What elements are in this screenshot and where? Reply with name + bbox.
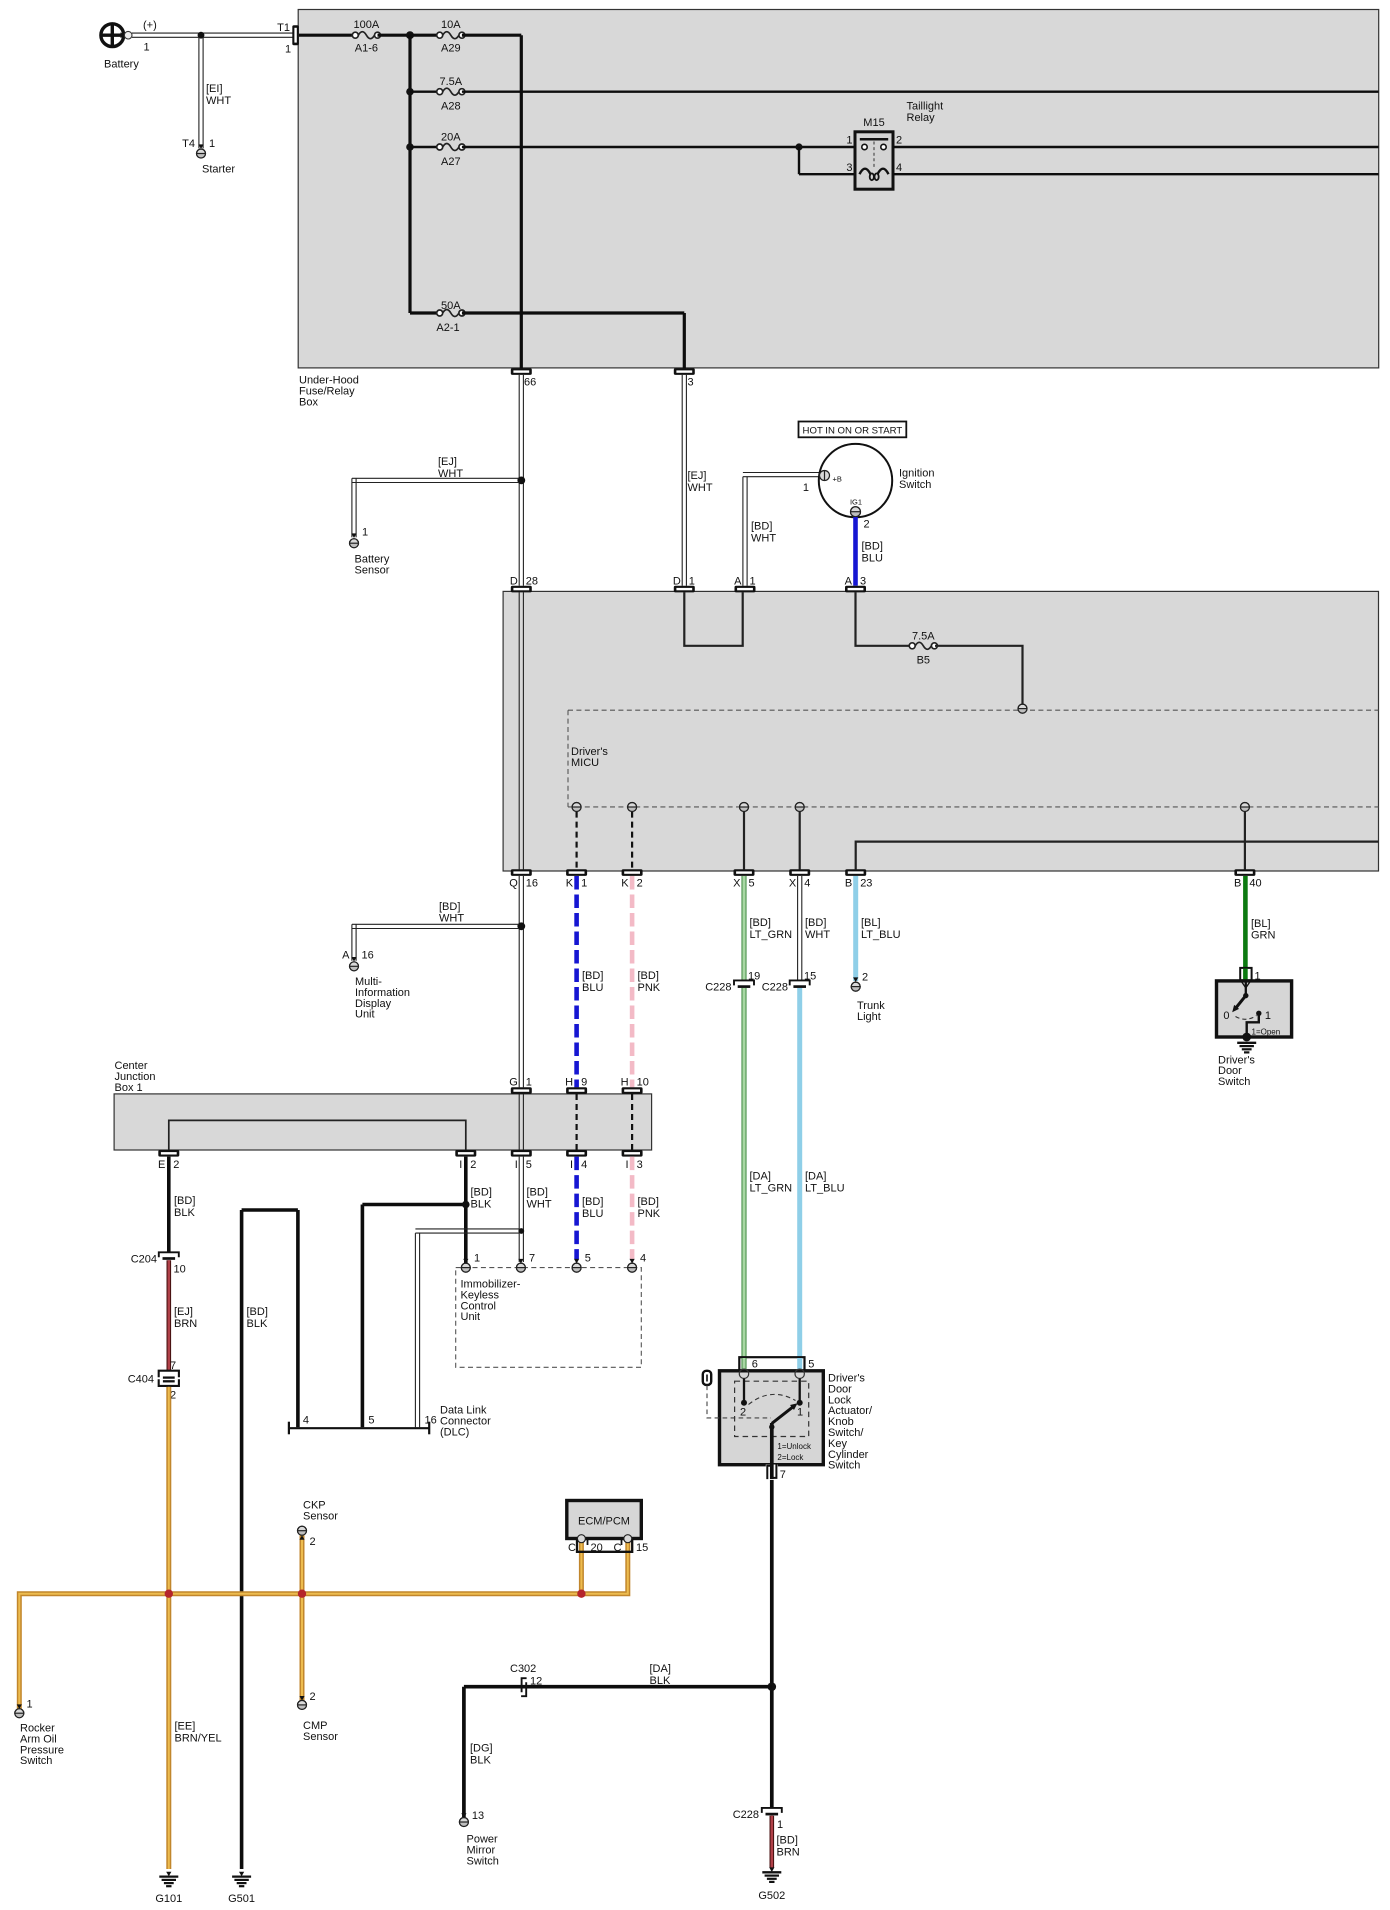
svg-text:40: 40: [1249, 878, 1261, 890]
door switch case ground: [1237, 1033, 1256, 1053]
power mirror switch pin 13: [459, 1810, 499, 1867]
svg-text:3: 3: [637, 1159, 643, 1171]
connector C404 pins 7/2: [128, 1360, 179, 1402]
orange wire CKP to CMP sensor: [300, 1535, 305, 1704]
fuse 7.5A B5: [909, 630, 937, 666]
connector I 2 (junction box bottom): [455, 1150, 476, 1171]
svg-text:Sensor: Sensor: [303, 1731, 338, 1743]
svg-text:5: 5: [749, 878, 755, 890]
svg-text:[BD]: [BD]: [862, 541, 883, 553]
svg-text:19: 19: [748, 971, 760, 983]
fuse 100A A1-6: [352, 19, 380, 55]
ground G101: [155, 1872, 182, 1905]
black wire door lock to C228 and DA BLK junction: [768, 1480, 777, 1808]
MICU pin on dashed line (B5 feed): [1018, 704, 1027, 713]
svg-text:1=Unlock: 1=Unlock: [777, 1442, 812, 1451]
connector K 2 (MICU bottom): [621, 869, 642, 889]
svg-text:[DG]: [DG]: [470, 1743, 493, 1755]
svg-text:16: 16: [362, 950, 374, 962]
svg-text:WHT: WHT: [439, 913, 464, 925]
svg-text:1: 1: [285, 44, 291, 56]
connector I 5 (junction box bottom): [511, 1150, 532, 1171]
svg-text:D: D: [510, 575, 518, 587]
MICU internal dashed wire K1: [572, 803, 581, 870]
green wire B40 to door switch [BL] GRN: [1245, 876, 1275, 973]
svg-text:A29: A29: [441, 43, 461, 55]
green wire X5 to C228 [BD] LT_GRN: [744, 876, 792, 981]
svg-text:BLU: BLU: [582, 982, 603, 994]
pink dashed wire I3 to immobilizer pin 4 [BD] PNK: [632, 1157, 661, 1259]
svg-text:[BD]: [BD]: [471, 1187, 492, 1199]
multi-information display unit pin A 16: [342, 950, 410, 1021]
svg-text:16: 16: [425, 1415, 437, 1427]
svg-text:B5: B5: [917, 655, 930, 667]
svg-text:Switch: Switch: [828, 1460, 860, 1472]
svg-text:Box 1: Box 1: [115, 1082, 143, 1094]
connector C204 pin 10: [131, 1252, 186, 1275]
svg-text:7: 7: [780, 1469, 786, 1481]
fuse 20A A27: [437, 132, 465, 168]
wire B5 fuse to MICU pin: [935, 646, 1023, 705]
svg-text:2: 2: [862, 972, 868, 984]
svg-text:K: K: [621, 878, 629, 890]
svg-text:13: 13: [472, 1810, 484, 1822]
svg-text:[BD]: [BD]: [582, 970, 603, 982]
connector C228 pin 19: [705, 971, 760, 994]
svg-text:Sensor: Sensor: [303, 1510, 338, 1522]
MICU internal wire X5: [740, 803, 749, 870]
wire battery junction to starter: [199, 37, 231, 148]
wire 50A branch: [410, 311, 440, 314]
connector D 1 (MICU top): [673, 575, 695, 592]
svg-text:I: I: [570, 1159, 573, 1171]
svg-text:A: A: [342, 950, 350, 962]
svg-text:(+): (+): [143, 20, 157, 32]
HOT IN ON OR START banner: [799, 422, 907, 438]
svg-text:PNK: PNK: [638, 982, 661, 994]
connector I 3 (junction box bottom): [622, 1150, 643, 1171]
svg-text:LT_BLU: LT_BLU: [861, 929, 901, 941]
svg-text:66: 66: [524, 377, 536, 389]
svg-text:7.5A: 7.5A: [912, 630, 935, 642]
svg-text:15: 15: [636, 1542, 648, 1554]
svg-text:[BD]: [BD]: [582, 1196, 603, 1208]
pink dashed wire K2 to H10 [BD] PNK: [632, 876, 661, 1087]
svg-text:9: 9: [581, 1076, 587, 1088]
svg-text:G501: G501: [228, 1893, 255, 1905]
ECM/PCM pin C 20: [577, 1535, 585, 1543]
svg-text:Relay: Relay: [907, 112, 936, 124]
black wire to G501 and DLC pin 4 [BD] BLK: [242, 1210, 298, 1869]
svg-text:BRN: BRN: [174, 1318, 197, 1330]
svg-text:2: 2: [896, 135, 902, 147]
black wire I2 to immobilizer pin 1 [BD] BLK: [466, 1157, 492, 1263]
wire 100A fuse to bus junction: [378, 31, 415, 39]
svg-text:1: 1: [27, 1699, 33, 1711]
junction dot orange at CKP wire: [298, 1590, 306, 1598]
wire battery to T1 [EI] WHT: [132, 32, 293, 39]
svg-text:BLK: BLK: [247, 1318, 268, 1330]
svg-text:12: 12: [530, 1676, 542, 1688]
svg-text:10A: 10A: [441, 19, 461, 31]
blue dashed wire I4 to immobilizer pin 5 [BD] BLU: [577, 1157, 604, 1259]
svg-text:Starter: Starter: [202, 164, 235, 176]
Under-Hood Fuse/Relay Box: [298, 10, 1379, 409]
starter pin T4-1: [182, 138, 235, 176]
svg-text:I: I: [626, 1159, 629, 1171]
svg-text:LT_GRN: LT_GRN: [750, 1183, 793, 1195]
svg-text:MICU: MICU: [571, 757, 599, 769]
svg-text:5: 5: [368, 1415, 374, 1427]
svg-text:[DA]: [DA]: [750, 1171, 771, 1183]
ground G501: [228, 1872, 255, 1905]
svg-text:T1: T1: [277, 22, 290, 34]
immobilizer pin 5: [572, 1253, 591, 1273]
svg-text:1: 1: [209, 138, 215, 150]
svg-text:G101: G101: [155, 1893, 182, 1905]
svg-text:(DLC): (DLC): [440, 1427, 469, 1439]
svg-text:T4: T4: [182, 138, 195, 150]
svg-text:B: B: [845, 878, 852, 890]
svg-text:[DA]: [DA]: [805, 1171, 826, 1183]
svg-text:4: 4: [581, 1159, 587, 1171]
svg-text:2: 2: [740, 1407, 746, 1419]
svg-text:PNK: PNK: [638, 1208, 661, 1220]
svg-text:A: A: [734, 575, 742, 587]
white wire Q16 to G1 [BD] WHT: [439, 876, 525, 1087]
immobilizer pin 7: [516, 1253, 535, 1273]
fuse bus vertical wire: [408, 35, 411, 313]
MICU internal wire A3 to fuse B5: [856, 592, 912, 646]
black wire E2 to C204 [BD] BLK: [169, 1157, 196, 1252]
white wire A1 to ignition switch +B [BD] WHT: [743, 473, 820, 586]
MICU internal wire B40: [1240, 803, 1249, 870]
connector A 1 (MICU top): [734, 575, 755, 592]
svg-text:K: K: [566, 878, 574, 890]
svg-text:100A: 100A: [354, 19, 380, 31]
black wire branch I2 to DLC pin 5: [362, 1201, 469, 1428]
wire 7.5A fuse to box right edge: [462, 90, 1379, 92]
svg-text:[BD]: [BD]: [777, 1835, 798, 1847]
svg-text:1: 1: [803, 482, 809, 494]
junction dot orange at G101 wire: [165, 1590, 173, 1598]
driver's door switch connector 1: [1240, 968, 1260, 983]
dark red wire C228 to G502 [BD] BRN: [772, 1816, 800, 1868]
driver's door switch box: [1217, 981, 1292, 1088]
svg-text:Unit: Unit: [355, 1009, 375, 1021]
svg-text:[EJ]: [EJ]: [438, 456, 457, 468]
svg-text:[BD]: [BD]: [247, 1306, 268, 1318]
svg-text:I: I: [515, 1159, 518, 1171]
svg-text:Unit: Unit: [461, 1311, 481, 1323]
connector H 9 (junction box top): [565, 1076, 587, 1094]
svg-text:C404: C404: [128, 1373, 154, 1385]
svg-text:A2-1: A2-1: [436, 322, 459, 334]
connector C228 pin 15: [762, 971, 817, 994]
battery sensor pin 1: [350, 527, 390, 577]
svg-text:Ignition: Ignition: [899, 468, 934, 480]
svg-text:M15: M15: [863, 117, 884, 129]
junction to 7.5A fuse: [406, 88, 440, 96]
wire 10A fuse to connector 66: [462, 35, 521, 368]
svg-text:4: 4: [804, 878, 810, 890]
connector Q 16 (MICU bottom): [509, 869, 538, 889]
svg-text:Battery: Battery: [104, 59, 139, 71]
svg-text:WHT: WHT: [688, 482, 713, 494]
svg-text:1=Open: 1=Open: [1252, 1028, 1281, 1037]
blue dashed wire K1 to H9 [BD] BLU: [577, 876, 604, 1087]
svg-text:C204: C204: [131, 1253, 157, 1265]
junction box internal wire E2-I2: [169, 1120, 466, 1150]
svg-text:3: 3: [846, 162, 852, 174]
svg-text:1: 1: [144, 42, 150, 54]
door lock switch contacts 2 and 1: [740, 1379, 803, 1419]
svg-text:[EJ]: [EJ]: [688, 470, 707, 482]
svg-text:23: 23: [860, 878, 872, 890]
svg-text:Box: Box: [299, 396, 318, 408]
svg-text:[BD]: [BD]: [638, 970, 659, 982]
immobilizer pin 4: [628, 1253, 647, 1273]
svg-text:Taillight: Taillight: [907, 101, 944, 113]
svg-text:C228: C228: [762, 981, 788, 993]
svg-text:15: 15: [804, 971, 816, 983]
svg-text:WHT: WHT: [527, 1199, 552, 1211]
junction to 20A fuse: [406, 143, 440, 151]
dark red wire C204 to C404 [EJ] BRN: [169, 1260, 197, 1370]
Driver's MICU dashed outline: [568, 710, 1379, 807]
connector H 10 (junction box top): [621, 1076, 649, 1094]
svg-text:3: 3: [688, 377, 694, 389]
connector I 4 (junction box bottom): [566, 1150, 587, 1171]
black horizontal wire [DA] BLK: [464, 1663, 772, 1687]
svg-text:BRN: BRN: [777, 1847, 800, 1859]
svg-text:16: 16: [526, 878, 538, 890]
svg-text:BLU: BLU: [862, 553, 883, 565]
taillight relay M15: [846, 101, 943, 190]
MICU internal wire B23: [856, 842, 1379, 870]
light blue wire C228 to door lock actuator [DA] LT_BLU: [800, 988, 845, 1371]
svg-text:LT_GRN: LT_GRN: [750, 929, 793, 941]
white wire I5 to immobilizer pin 7 [BD] WHT: [518, 1157, 551, 1262]
svg-text:7.5A: 7.5A: [439, 76, 462, 88]
rocker arm oil pressure switch pin 1: [15, 1699, 64, 1768]
ECM/PCM: [567, 1501, 642, 1539]
CKP sensor pin 2: [298, 1500, 339, 1549]
white wire X4 to C228 [BD] WHT: [798, 876, 831, 981]
svg-text:1: 1: [846, 135, 852, 147]
svg-text:7: 7: [529, 1253, 535, 1265]
svg-text:20: 20: [591, 1542, 603, 1554]
fuse 7.5A A28: [437, 76, 465, 112]
battery: [101, 20, 157, 71]
svg-text:6: 6: [752, 1358, 758, 1370]
black wire to power mirror switch [DG] BLK: [464, 1687, 493, 1818]
Driver's MICU box: [503, 591, 1378, 871]
svg-text:2: 2: [173, 1159, 179, 1171]
svg-text:Switch: Switch: [1218, 1076, 1250, 1088]
connector 66: [511, 368, 536, 388]
svg-text:X: X: [789, 878, 797, 890]
svg-text:[BL]: [BL]: [861, 917, 881, 929]
MICU internal wire D1 to A1: [684, 592, 742, 646]
svg-text:A1-6: A1-6: [355, 43, 378, 55]
svg-text:2: 2: [310, 1536, 316, 1548]
MICU internal dashed wire K2: [628, 803, 637, 870]
svg-text:2: 2: [637, 878, 643, 890]
svg-text:2=Lock: 2=Lock: [777, 1453, 804, 1462]
door lock switch lever: [769, 1403, 812, 1464]
svg-text:BLU: BLU: [582, 1208, 603, 1220]
svg-text:A28: A28: [441, 101, 461, 113]
wire relay pin 2 to box edge: [893, 146, 1379, 148]
svg-text:5: 5: [526, 1159, 532, 1171]
connector C302 pin 12: [510, 1663, 542, 1696]
driver's door lock actuator connector pins 6/5: [739, 1357, 814, 1371]
wire IG1 to A3 [BD] BLU: [856, 517, 883, 586]
wire 20A fuse to relay pin 1: [462, 146, 855, 148]
svg-text:1: 1: [689, 575, 695, 587]
junction dot orange at ECM C20: [577, 1590, 585, 1598]
svg-text:Sensor: Sensor: [355, 565, 390, 577]
svg-text:10: 10: [637, 1076, 649, 1088]
svg-text:GRN: GRN: [1251, 930, 1276, 942]
connector B 40 (MICU bottom): [1234, 869, 1262, 889]
svg-text:1: 1: [1265, 1010, 1271, 1022]
svg-text:E: E: [158, 1159, 165, 1171]
ignition switch pin 2 IG1: [850, 498, 870, 531]
svg-text:LT_BLU: LT_BLU: [805, 1183, 845, 1195]
ground G502: [758, 1867, 785, 1902]
connector K 1 (MICU bottom): [566, 869, 587, 889]
svg-text:1: 1: [526, 1076, 532, 1088]
svg-text:X: X: [733, 878, 741, 890]
connector 3 (under-hood): [674, 368, 695, 388]
wire junction to 10A fuse: [410, 34, 440, 37]
fuse 10A A29: [437, 19, 465, 55]
svg-text:[BL]: [BL]: [1251, 918, 1271, 930]
ECM/PCM pin C 15: [624, 1535, 632, 1543]
CMP sensor pin 2: [298, 1691, 339, 1743]
key symbol: [703, 1371, 771, 1418]
light blue wire B23 to trunk light [BL] LT_BLU: [856, 876, 901, 981]
svg-text:10: 10: [174, 1264, 186, 1276]
svg-text:7: 7: [170, 1360, 176, 1372]
orange wire ECM C20 pigtail: [579, 1541, 584, 1594]
svg-text:[BD]: [BD]: [439, 901, 460, 913]
orange harness wire rocker arm / horizontal run: [19, 1541, 628, 1709]
svg-text:1: 1: [474, 1253, 480, 1265]
svg-text:A: A: [845, 575, 853, 587]
wire 50A fuse to connector 3: [462, 313, 684, 368]
connector G 1 (junction box top): [509, 1076, 532, 1094]
junction and branch to relay pin 3: [795, 143, 855, 174]
svg-text:[BD]: [BD]: [750, 917, 771, 929]
svg-text:BRN/YEL: BRN/YEL: [175, 1733, 222, 1745]
svg-text:20A: 20A: [441, 132, 461, 144]
svg-text:G: G: [509, 1076, 518, 1088]
wire relay pin 4 to box edge: [893, 173, 1379, 175]
svg-text:IG1: IG1: [850, 498, 862, 507]
door switch internal contacts: [1223, 981, 1280, 1037]
svg-text:C228: C228: [705, 981, 731, 993]
immobilizer-keyless control unit: [456, 1268, 642, 1368]
svg-text:1: 1: [777, 1819, 783, 1831]
wire T1 to 100A fuse: [299, 34, 353, 37]
white wire branch to DLC pin 16: [415, 1229, 519, 1427]
white wire 3 to D1 [EJ] WHT: [682, 375, 713, 586]
svg-text:4: 4: [303, 1415, 309, 1427]
connector X 5 (MICU bottom): [733, 869, 754, 889]
svg-text:H: H: [621, 1076, 629, 1088]
svg-text:D: D: [673, 575, 681, 587]
ignition switch: [819, 444, 935, 517]
svg-text:[BD]: [BD]: [805, 917, 826, 929]
connector X 4 (MICU bottom): [789, 869, 810, 889]
svg-text:C: C: [614, 1542, 622, 1554]
connector E 2 (junction box bottom): [158, 1150, 179, 1171]
svg-text:[BD]: [BD]: [174, 1195, 195, 1207]
svg-text:I: I: [459, 1159, 462, 1171]
svg-text:5: 5: [585, 1253, 591, 1265]
svg-text:HOT IN ON OR START: HOT IN ON OR START: [803, 425, 903, 436]
trunk light pin 2: [851, 972, 885, 1024]
driver's door lock actuator box: [720, 1371, 873, 1472]
door lock actuator entry circles: [739, 1369, 804, 1378]
svg-text:1: 1: [581, 878, 587, 890]
connector A 3 (MICU top): [845, 575, 866, 592]
connector B 23 (MICU bottom): [845, 869, 873, 889]
MICU internal wire D28 to Q16: [519, 592, 523, 869]
svg-text:[EJ]: [EJ]: [174, 1306, 193, 1318]
svg-text:[DA]: [DA]: [650, 1663, 671, 1675]
MICU internal wire X4: [795, 803, 804, 870]
connector D 28 (MICU top): [510, 575, 538, 592]
svg-text:B: B: [1234, 878, 1241, 890]
immobilizer pin 1: [461, 1253, 480, 1273]
svg-text:BLK: BLK: [650, 1675, 671, 1687]
svg-text:1: 1: [750, 575, 756, 587]
ignition switch pin 1 +B: [803, 471, 842, 495]
svg-text:WHT: WHT: [751, 533, 776, 545]
fuse 50A A2-1: [436, 300, 465, 334]
connector T1: [277, 22, 299, 56]
white wire branch to battery sensor: [352, 478, 519, 537]
green wire C228 to door lock actuator [DA] LT_GRN: [744, 988, 792, 1371]
connector 7 (door lock): [766, 1465, 786, 1482]
white wire branch to multi-information display unit: [352, 924, 519, 961]
Center Junction Box 1: [114, 1060, 652, 1150]
svg-text:WHT: WHT: [805, 929, 830, 941]
svg-text:G502: G502: [758, 1890, 785, 1902]
svg-text:[BD]: [BD]: [527, 1187, 548, 1199]
junction box internal dashed wire H9-I4: [575, 1094, 577, 1150]
svg-text:0: 0: [1223, 1010, 1229, 1022]
svg-text:[BD]: [BD]: [638, 1196, 659, 1208]
svg-text:4: 4: [640, 1253, 646, 1265]
svg-text:1: 1: [362, 527, 368, 539]
svg-text:2: 2: [310, 1691, 316, 1703]
svg-text:C302: C302: [510, 1663, 536, 1675]
svg-text:4: 4: [896, 162, 902, 174]
svg-text:H: H: [565, 1076, 573, 1088]
svg-text:+B: +B: [833, 475, 842, 484]
svg-text:BLK: BLK: [471, 1199, 492, 1211]
svg-text:1: 1: [797, 1407, 803, 1419]
svg-text:Light: Light: [857, 1011, 881, 1023]
svg-text:[EE]: [EE]: [175, 1721, 196, 1733]
door lock actuator internal dashed box: [735, 1381, 809, 1436]
ECM/PCM connector bracket C 20 / C 15: [568, 1540, 648, 1554]
